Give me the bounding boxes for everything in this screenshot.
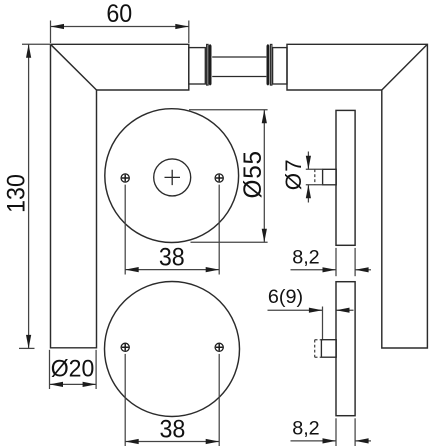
top rosette side-view bar [336, 110, 355, 245]
top spindle pin side view [323, 169, 337, 185]
right dark collar ring [267, 44, 270, 85]
top rosette spindle hole [154, 159, 191, 196]
spindle hole cross [165, 170, 181, 185]
dimension Ø7 [306, 152, 323, 203]
dimension 6(9) [268, 307, 354, 341]
svg-text:8,2: 8,2 [292, 247, 320, 269]
right spindle neck [273, 48, 287, 84]
right handle miter seam [382, 44, 428, 90]
top rosette circle [105, 109, 239, 243]
spindle bar [212, 57, 266, 77]
left dark collar ring [209, 44, 212, 85]
bottom pin hidden extension dashed [315, 340, 322, 358]
dimension 8,2 top [291, 248, 372, 276]
left lever handle outline [51, 44, 189, 348]
dimension 8,2 bottom [291, 418, 372, 446]
svg-text:130: 130 [3, 174, 31, 213]
top rosette right screw [215, 174, 223, 182]
svg-text:60: 60 [106, 0, 132, 28]
svg-text:38: 38 [159, 416, 185, 444]
dimension 38 bottom [125, 354, 219, 446]
dimension 38 top [125, 185, 219, 275]
bottom rosette left screw [121, 343, 129, 351]
right lever handle outline [287, 44, 427, 348]
top pin hidden extension dashed [314, 169, 316, 185]
svg-text:Ø20: Ø20 [51, 356, 95, 383]
bottom rosette side-view bar [336, 282, 355, 416]
bottom pin side view [321, 340, 336, 358]
dimension Ø20 [50, 350, 97, 389]
left handle miter seam [51, 44, 97, 90]
left spindle neck [189, 48, 206, 84]
svg-text:Ø55: Ø55 [240, 150, 267, 198]
dimension 60 [51, 21, 189, 44]
top rosette left screw [121, 174, 129, 182]
right thin collar ring [270, 44, 272, 85]
bottom rosette circle [105, 282, 240, 417]
svg-text:Ø7: Ø7 [281, 158, 306, 190]
dimension Ø55 [189, 110, 268, 243]
dimension 130 [19, 44, 51, 348]
svg-text:38: 38 [159, 244, 185, 272]
left thin collar ring [207, 44, 209, 85]
svg-text:8,2: 8,2 [292, 418, 320, 440]
svg-text:6(9): 6(9) [268, 286, 303, 308]
bottom rosette right screw [215, 343, 223, 351]
